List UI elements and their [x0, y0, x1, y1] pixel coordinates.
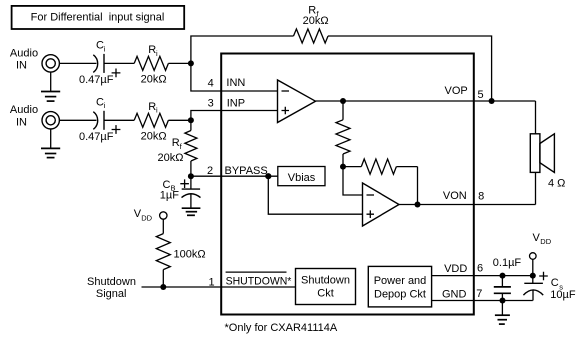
- supply VDD terminal (left): [134, 208, 167, 222]
- resistor Rf (feedback 20k, top): [294, 5, 329, 43]
- node (INP input node): [188, 117, 194, 123]
- svg-text:Vbias: Vbias: [288, 172, 316, 184]
- wire 100k to shutdown node: [162, 270, 164, 287]
- connector J2 (audio input 2 jack): [42, 112, 59, 129]
- svg-text:IN: IN: [16, 116, 27, 128]
- svg-text:20kΩ: 20kΩ: [158, 152, 184, 164]
- wire Ri1 to node: [168, 62, 191, 64]
- svg-text:IN: IN: [16, 60, 27, 72]
- ground (input 1 jack): [41, 72, 60, 101]
- ground (input 2 jack): [41, 129, 60, 158]
- svg-text:Audio: Audio: [10, 47, 38, 59]
- label Shutdown Signal: [87, 276, 136, 300]
- node (VDD bypass): [500, 273, 506, 279]
- wire Ri2 to node: [168, 119, 191, 121]
- resistor 100k (shutdown pullup): [156, 234, 205, 270]
- wire shutdown signal to pin 1: [142, 286, 296, 288]
- svg-text:GND: GND: [442, 289, 467, 301]
- wire VOP to speaker: [535, 101, 537, 134]
- svg-text:0.47µF: 0.47µF: [79, 131, 114, 143]
- wire node to pin 4 INN: [191, 63, 278, 91]
- svg-text:6: 6: [477, 262, 483, 274]
- wire jack2 to Ci2: [59, 119, 96, 121]
- svg-text:20kΩ: 20kΩ: [141, 74, 167, 86]
- node (GND junction): [500, 298, 506, 304]
- wire node up to Rf feedback: [191, 36, 294, 63]
- wire VDD terminal to CS: [532, 259, 534, 283]
- svg-text:Depop Ckt: Depop Ckt: [374, 289, 426, 301]
- svg-text:R: R: [172, 137, 180, 149]
- svg-text:*Only for CXAR41114A: *Only for CXAR41114A: [225, 322, 338, 334]
- svg-text:100kΩ: 100kΩ: [174, 249, 206, 261]
- capacitor Ci (input 2, 0.47uF): [79, 97, 120, 144]
- supply VDD terminal (right): [530, 232, 552, 259]
- wire GND pin 7: [432, 300, 533, 302]
- svg-text:VDD: VDD: [444, 263, 467, 275]
- svg-text:C: C: [551, 277, 559, 289]
- svg-text:10µF: 10µF: [550, 289, 576, 301]
- wire node to op2 inverting input: [343, 167, 363, 195]
- resistor (internal, horizontal): [343, 159, 418, 205]
- wire Ci2 to Ri2: [104, 119, 134, 121]
- node (internal divider): [340, 164, 346, 170]
- node (BYPASS node): [188, 173, 194, 179]
- svg-text:DD: DD: [540, 237, 551, 246]
- IC box U1 (CXAR41114A): [221, 54, 474, 315]
- resistor Ri (input 1, 20k): [134, 44, 168, 85]
- resistor Rf (20k, INP to BYPASS): [158, 120, 197, 176]
- polarity plus: [539, 272, 548, 281]
- wire op2 output to VON pin 8: [399, 204, 536, 206]
- wire VDD pin 6: [432, 275, 533, 277]
- polarity plus: [180, 179, 189, 188]
- wire BYPASS node to pin 2 and Vbias: [191, 175, 278, 177]
- pin name SHUTDOWN* (with overline): [226, 272, 292, 287]
- label Audio IN (input 1): [10, 47, 38, 71]
- ground (CB): [182, 194, 201, 216]
- wire BYPASS to op2 non-inverting input: [268, 176, 362, 214]
- polarity plus: [112, 69, 121, 78]
- resistor (internal, vertical): [336, 101, 350, 167]
- capacitor Ci (input 1, 0.47uF): [79, 40, 120, 86]
- svg-text:Power and: Power and: [374, 275, 427, 287]
- capacitor 0.1uF: [494, 276, 511, 301]
- connector J1 (audio input 1 jack): [42, 55, 59, 72]
- svg-text:Audio: Audio: [10, 104, 38, 116]
- svg-text:2: 2: [207, 165, 213, 177]
- svg-text:Ckt: Ckt: [317, 288, 334, 300]
- svg-text:INP: INP: [227, 97, 245, 109]
- ground (supply): [495, 301, 510, 325]
- wire Rf to VOP node: [328, 36, 492, 101]
- wire op1 output to VOP pin 5: [316, 100, 536, 102]
- svg-text:INN: INN: [226, 77, 245, 89]
- wire Ci1 to Ri1: [104, 62, 134, 64]
- svg-text:VON: VON: [443, 190, 467, 202]
- capacitor CB (bypass 1uF): [160, 176, 201, 201]
- node (INN input node): [188, 60, 194, 66]
- svg-text:4 Ω: 4 Ω: [548, 177, 565, 189]
- svg-text:8: 8: [478, 190, 484, 202]
- svg-text:5: 5: [478, 89, 484, 101]
- wire node to pin 3 INP: [191, 111, 278, 121]
- op-amp U1b: [363, 183, 400, 226]
- svg-text:0.47µF: 0.47µF: [79, 74, 114, 86]
- Shutdown Ckt box: [296, 269, 356, 305]
- op-amp U1a: [278, 80, 316, 123]
- wire jack1 to Ci1: [59, 62, 96, 64]
- svg-text:Shutdown: Shutdown: [301, 275, 350, 287]
- svg-text:BYPASS: BYPASS: [225, 165, 268, 177]
- svg-text:20kΩ: 20kΩ: [141, 131, 167, 143]
- Power and Depop Ckt box: [368, 266, 431, 307]
- svg-text:3: 3: [208, 97, 214, 109]
- svg-text:SHUTDOWN*: SHUTDOWN*: [226, 275, 292, 287]
- svg-text:VOP: VOP: [445, 85, 468, 97]
- node (shutdown): [160, 284, 166, 290]
- speaker LS1: [530, 134, 565, 190]
- svg-text:7: 7: [476, 288, 482, 300]
- node (VDD terminal junction): [530, 273, 536, 279]
- svg-text:1: 1: [209, 277, 215, 289]
- node (op1 output): [340, 98, 346, 104]
- node (VOP feedback junction): [489, 98, 495, 104]
- svg-text:V: V: [533, 232, 541, 244]
- svg-text:0.1µF: 0.1µF: [493, 257, 522, 269]
- svg-text:For Differential input signal: For Differential input signal: [31, 11, 165, 23]
- node (VON output): [415, 202, 421, 208]
- resistor Ri (input 2, 20k): [134, 101, 168, 142]
- svg-text:DD: DD: [141, 213, 152, 222]
- title box: For Differential input signal: [12, 6, 185, 29]
- Vbias box: [278, 167, 325, 186]
- capacitor CS (10uF): [523, 272, 575, 301]
- svg-text:4: 4: [208, 77, 214, 89]
- svg-text:20kΩ: 20kΩ: [303, 15, 329, 27]
- wire VON to speaker: [535, 172, 537, 204]
- node (BYPASS branch to op2): [265, 173, 271, 179]
- label Audio IN (input 2): [10, 104, 38, 128]
- svg-text:1µF: 1µF: [160, 190, 179, 202]
- svg-text:Signal: Signal: [96, 288, 127, 300]
- wire VDD to R 100k: [162, 219, 164, 233]
- polarity plus: [112, 125, 121, 134]
- svg-text:Shutdown: Shutdown: [87, 276, 136, 288]
